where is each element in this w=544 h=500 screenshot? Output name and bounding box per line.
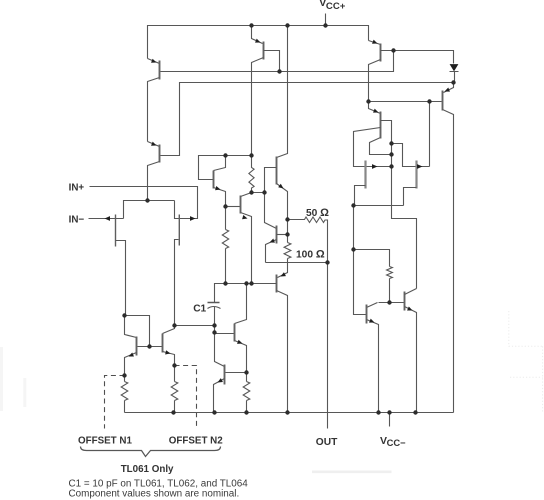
svg-text:100 Ω: 100 Ω xyxy=(296,249,325,261)
svg-text:TL061 Only: TL061 Only xyxy=(121,464,174,475)
svg-text:CC+: CC+ xyxy=(326,1,346,12)
svg-text:OUT: OUT xyxy=(316,437,338,448)
svg-text:CC−: CC− xyxy=(387,437,407,448)
svg-text:Component values shown are nom: Component values shown are nominal. xyxy=(69,488,240,499)
svg-text:50 Ω: 50 Ω xyxy=(306,207,329,219)
svg-text:IN+: IN+ xyxy=(69,182,85,193)
svg-text:OFFSET N1: OFFSET N1 xyxy=(78,436,132,447)
svg-text:C1: C1 xyxy=(193,303,206,314)
svg-text:OFFSET N2: OFFSET N2 xyxy=(169,436,223,447)
svg-text:IN−: IN− xyxy=(69,214,85,225)
